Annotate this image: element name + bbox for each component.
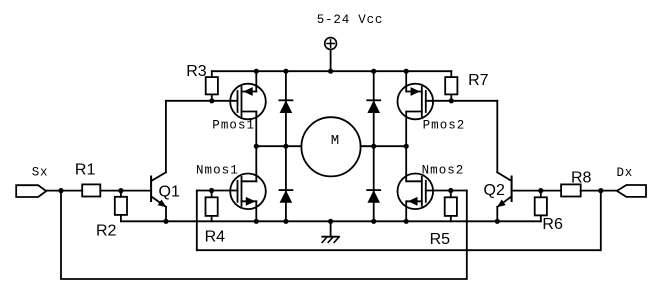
svg-text:Dx: Dx — [617, 166, 634, 180]
svg-text:R5: R5 — [430, 231, 451, 248]
svg-text:Q2: Q2 — [484, 182, 505, 199]
svg-text:M: M — [331, 133, 339, 149]
svg-text:R1: R1 — [75, 162, 96, 179]
svg-text:R6: R6 — [542, 216, 563, 233]
svg-text:R3: R3 — [186, 63, 207, 80]
svg-text:Pmos1: Pmos1 — [212, 119, 255, 133]
svg-text:5-24 Vcc: 5-24 Vcc — [317, 13, 383, 27]
svg-text:Sx: Sx — [32, 166, 49, 180]
svg-text:Nmos2: Nmos2 — [422, 164, 465, 178]
svg-text:Nmos1: Nmos1 — [196, 163, 239, 177]
svg-text:R7: R7 — [468, 72, 489, 89]
svg-text:Q1: Q1 — [159, 183, 180, 200]
svg-text:R4: R4 — [205, 228, 226, 245]
svg-text:Pmos2: Pmos2 — [423, 118, 466, 132]
svg-text:R2: R2 — [96, 222, 117, 239]
svg-text:R8: R8 — [571, 170, 592, 187]
